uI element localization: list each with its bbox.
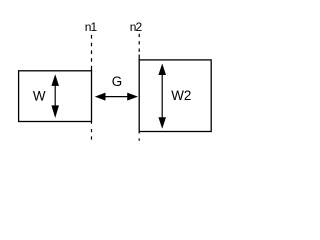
wire: dashed port line n1, segment above rectangle bbox=[91, 35, 93, 62]
W dimension arrow (vertical double arrow) bbox=[51, 74, 59, 118]
svg-text:n1: n1 bbox=[85, 20, 98, 34]
microstrip line 2 (width W2) rectangle bbox=[139, 60, 211, 132]
G gap dimension arrow (horizontal double arrow) bbox=[95, 93, 138, 101]
wire: rect edge extension below corner bbox=[91, 122, 93, 124]
wire: rect edge extension below corner bbox=[138, 132, 140, 134]
wire: dash merging into rectangle top corner bbox=[138, 55, 140, 60]
svg-text:W2: W2 bbox=[171, 88, 191, 103]
svg-text:n2: n2 bbox=[130, 20, 143, 34]
wire: dashed port line n2, segment below rectangle bbox=[138, 138, 140, 140]
wire: dash merging into rectangle top corner bbox=[91, 66, 93, 71]
svg-text:G: G bbox=[112, 74, 122, 89]
wire: dashed port line n1, segment below rectangle bbox=[91, 129, 93, 140]
microstrip line 1 (width W) rectangle bbox=[19, 71, 92, 122]
svg-text:W: W bbox=[33, 88, 46, 103]
W2 dimension arrow (vertical double arrow) bbox=[158, 64, 166, 129]
wire: dashed port line n2, segment above rectangle bbox=[138, 34, 140, 52]
